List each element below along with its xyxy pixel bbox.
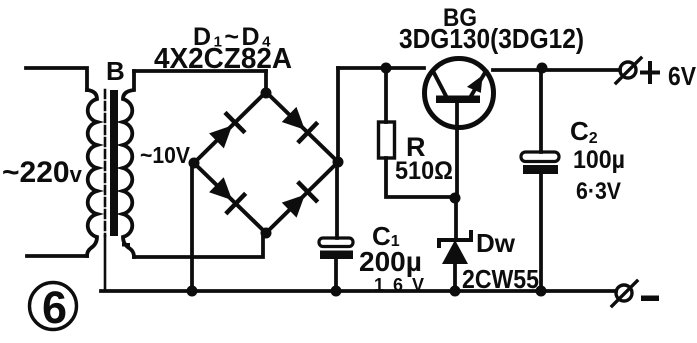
node left vertex on bottom rail (187, 286, 198, 297)
node C2 on bottom rail (536, 286, 547, 297)
wire secondary bottom to bridge bottom vertex (134, 235, 263, 257)
diode D1 (left-to-top edge) (208, 114, 243, 149)
svg-text:3DG130(3DG12): 3DG130(3DG12) (399, 23, 584, 54)
svg-text:6: 6 (42, 282, 67, 333)
transistor base bar (436, 96, 480, 104)
transformer B primary winding (87, 90, 97, 256)
figure number circle 6 (30, 283, 77, 330)
label minus polarity at core (122, 243, 130, 247)
transistor BG circle (425, 59, 494, 128)
wire top rail (transistor to +) (493, 68, 620, 72)
svg-text:16V: 16V (374, 275, 424, 295)
resistor R body (379, 122, 395, 158)
svg-text:6·3V: 6·3V (576, 178, 621, 205)
wire bottom rail (101, 289, 616, 293)
capacitor C1 top plate (319, 238, 353, 247)
transistor emitter arrow (467, 71, 489, 94)
svg-text:2CW55: 2CW55 (462, 264, 539, 294)
terminal minus (616, 285, 632, 301)
svg-text:510Ω: 510Ω (395, 157, 453, 185)
svg-text:B: B (106, 56, 125, 86)
node bridge bottom (261, 228, 272, 239)
bridge diamond wires (194, 92, 338, 233)
transistor emitter line (471, 71, 486, 96)
wire C2 bottom lead (539, 174, 543, 291)
node DW on bottom rail (450, 286, 461, 297)
diode D2 (top-to-right edge) (281, 106, 316, 141)
node R top on rail (381, 63, 392, 74)
node base junction (450, 193, 461, 204)
zener DW cathode bar (439, 232, 471, 246)
capacitor C2 bottom plate (523, 165, 558, 174)
diode D3 (left-to-bottom edge) (208, 176, 244, 212)
terminal +6V (620, 62, 636, 78)
node bridge right (333, 157, 344, 168)
diode D4 (bottom-to-right edge) (281, 183, 316, 218)
minus sign (641, 296, 659, 302)
wire C1 bottom lead (334, 259, 338, 291)
svg-text:100µ: 100µ (573, 146, 625, 174)
wire secondary top to rail (134, 69, 266, 73)
svg-text:200µ: 200µ (359, 246, 422, 277)
transformer core thin line (104, 90, 107, 236)
zener DW triangle (442, 240, 468, 264)
transistor collector line (433, 71, 446, 96)
wire bridge right vertex up to top rail (336, 68, 340, 162)
capacitor C2 top plate (521, 152, 559, 162)
wire bridge left vertex down to bottom rail (190, 163, 194, 291)
wire primary bottom lead (27, 254, 87, 258)
capacitor C1 bottom plate (320, 251, 353, 260)
wire C2 top lead (539, 68, 543, 152)
wire transistor base lead (455, 103, 459, 197)
node bridge left (189, 158, 200, 169)
wire zener bottom lead (453, 264, 457, 291)
transformer secondary winding (123, 71, 134, 257)
plus sign (642, 63, 658, 82)
wire resistor top lead (384, 68, 388, 122)
node bridge top (261, 88, 272, 99)
wire top rail (bridge to transistor) (338, 66, 424, 70)
svg-text:6V: 6V (668, 61, 697, 91)
svg-text:4X2CZ82A: 4X2CZ82A (154, 43, 292, 75)
transformer core bar (110, 90, 118, 236)
transformer core line to bottom rail (104, 236, 107, 290)
wire primary top lead (26, 68, 87, 90)
svg-text:~10V: ~10V (140, 142, 191, 168)
wire zener top lead (454, 197, 458, 237)
wire rail down to bridge top vertex (264, 71, 268, 92)
svg-text:Dw: Dw (476, 228, 516, 258)
wire resistor bottom lead to base junction (386, 158, 452, 197)
node C2 top on rail (537, 63, 548, 74)
node C1 on bottom rail (331, 286, 342, 297)
wire C1 top lead from bridge right vertex (335, 162, 339, 238)
